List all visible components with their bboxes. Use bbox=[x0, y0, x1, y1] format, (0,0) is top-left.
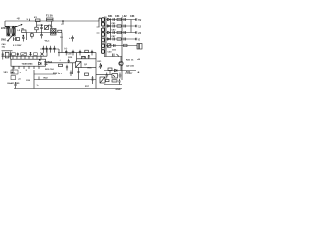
wire bottom long rail bbox=[14, 88, 122, 90]
capacitor C19b bbox=[53, 46, 55, 53]
label L2 bbox=[18, 30, 21, 32]
capacitor C30 bbox=[113, 54, 120, 57]
svg-text:R22: R22 bbox=[44, 78, 49, 80]
svg-text:GND: GND bbox=[116, 89, 121, 91]
vertical tick x131 bbox=[130, 20, 132, 33]
capacitor C85 bbox=[124, 25, 126, 28]
label Q2 row3 bbox=[126, 72, 131, 74]
label snubber a bbox=[65, 48, 68, 50]
wire y68 stub bbox=[77, 68, 79, 80]
label R9b bbox=[20, 72, 22, 74]
svg-text:24: 24 bbox=[138, 32, 141, 35]
capacitor C16 bbox=[42, 46, 44, 53]
label out3 bbox=[138, 32, 141, 35]
label SW bbox=[1, 39, 7, 42]
svg-text:+g: +g bbox=[17, 17, 20, 20]
label D1 bbox=[37, 25, 44, 27]
secondary row4 label bbox=[130, 16, 135, 18]
node label B+ bbox=[17, 17, 20, 20]
resistor R40 bbox=[124, 44, 128, 47]
resistor R14 bbox=[85, 73, 89, 75]
wire mid right rail bbox=[104, 56, 122, 58]
svg-text:R26 1u +: R26 1u + bbox=[53, 73, 63, 75]
preset VR1 bbox=[11, 76, 16, 80]
wire drop x62 bbox=[61, 33, 63, 53]
svg-text:VR1: VR1 bbox=[4, 72, 9, 74]
svg-text:C84: C84 bbox=[115, 15, 120, 18]
secondary row3 label bbox=[123, 16, 128, 18]
label C50 bbox=[108, 52, 113, 54]
label D31 bbox=[98, 61, 103, 63]
wire mid rail bbox=[26, 33, 57, 41]
diode D82 bbox=[108, 25, 111, 27]
diode bridge D1 bbox=[45, 26, 49, 30]
svg-text:KA431 R25: KA431 R25 bbox=[8, 82, 21, 85]
capacitor C7 bbox=[17, 53, 19, 57]
svg-text:C4: C4 bbox=[60, 36, 64, 39]
resistor R9 bbox=[11, 70, 18, 74]
label bottom node bbox=[37, 85, 40, 87]
label Q2 row1 bbox=[126, 60, 134, 62]
vertical x34 bbox=[33, 70, 35, 89]
svg-text:220V: 220V bbox=[1, 27, 7, 30]
label LM bbox=[18, 79, 21, 81]
label D6 bbox=[44, 61, 52, 67]
label snubber b bbox=[68, 57, 73, 59]
fuse F1 bbox=[47, 18, 54, 21]
resistor R4 bbox=[58, 30, 62, 32]
tick on top wire bbox=[29, 19, 31, 21]
capacitor C12 bbox=[79, 50, 81, 56]
svg-text:R17: R17 bbox=[85, 86, 90, 88]
IC pin stubs top bbox=[13, 56, 41, 59]
switch S1 bbox=[7, 36, 12, 42]
capacitor C87 bbox=[113, 31, 115, 34]
secondary rail row2 bbox=[106, 25, 136, 27]
label row5 bbox=[112, 50, 117, 52]
label right edge mid bbox=[137, 59, 140, 61]
label under IC2 bbox=[25, 70, 28, 72]
diode D83 bbox=[108, 31, 111, 33]
relay RL1 bbox=[36, 19, 41, 22]
inductor L83 bbox=[117, 25, 121, 27]
svg-text:C26: C26 bbox=[26, 80, 31, 82]
capacitor C10 bbox=[65, 50, 67, 56]
capacitor C17 bbox=[45, 46, 47, 53]
capacitor C13 bbox=[91, 50, 93, 56]
svg-text:10u: 10u bbox=[2, 47, 6, 49]
inductor L84 bbox=[117, 31, 121, 33]
label row + bbox=[45, 68, 63, 75]
svg-text:C86: C86 bbox=[130, 16, 135, 18]
label T2 bbox=[50, 27, 53, 29]
label D4 top bbox=[49, 24, 53, 27]
vertical bus x122 bbox=[121, 17, 123, 80]
label R1 bbox=[22, 28, 26, 30]
label left edge b bbox=[2, 47, 6, 49]
label out4 bbox=[138, 39, 140, 41]
diode D85 bbox=[107, 44, 111, 47]
capacitor C8 bbox=[29, 52, 31, 56]
pin row1 bbox=[136, 18, 137, 21]
svg-text:12: 12 bbox=[138, 26, 141, 28]
transformer T3 taps bbox=[97, 27, 100, 33]
label row1 mid bbox=[112, 23, 117, 25]
secondary row2 label bbox=[115, 15, 120, 18]
node junction J1 bbox=[63, 21, 64, 25]
wire y58.8 rail bbox=[77, 53, 97, 59]
vertical x96 bbox=[95, 53, 97, 89]
line-filter LF1 winding left bbox=[5, 26, 10, 35]
label RL1 bbox=[34, 17, 38, 19]
secondary rail row4 bbox=[106, 38, 136, 40]
svg-text:Q1: Q1 bbox=[84, 64, 88, 66]
svg-text:0.1 250V: 0.1 250V bbox=[13, 45, 22, 47]
wire bottom right rail bbox=[104, 84, 122, 86]
svg-text:C18: C18 bbox=[68, 54, 73, 56]
wire top rail bbox=[5, 20, 99, 22]
capacitor C82 bbox=[124, 18, 126, 21]
svg-text:D81: D81 bbox=[108, 16, 113, 18]
label right edge low bbox=[137, 72, 140, 74]
capacitor C21b bbox=[70, 71, 72, 77]
capacitor C6 electrolytic bbox=[5, 52, 9, 58]
svg-text:+: + bbox=[69, 37, 71, 40]
label C4 bbox=[60, 36, 64, 39]
diode D84 bbox=[108, 38, 111, 40]
svg-text:Q2 C45: Q2 C45 bbox=[126, 65, 135, 68]
svg-text:.1: .1 bbox=[25, 70, 28, 72]
svg-text:PC817: PC817 bbox=[126, 73, 134, 75]
svg-text:+5: +5 bbox=[18, 79, 21, 81]
resistor R10 bbox=[85, 50, 89, 52]
capacitor C3 bbox=[40, 33, 43, 39]
svg-text:C81: C81 bbox=[112, 23, 117, 25]
capacitor C19 bbox=[68, 59, 70, 63]
svg-text:+: + bbox=[20, 72, 22, 74]
capacitor C91 bbox=[114, 44, 116, 47]
vertical tick x110 rows bbox=[109, 20, 111, 40]
diode D6 bbox=[39, 60, 42, 65]
svg-text:F1 3A: F1 3A bbox=[46, 15, 53, 18]
diode D81 bbox=[108, 18, 111, 20]
IC U1 label bbox=[22, 63, 34, 66]
IC pins top rail bbox=[2, 55, 48, 57]
svg-text:TDA16846: TDA16846 bbox=[22, 63, 34, 66]
label row2 mid bbox=[112, 30, 117, 32]
svg-text:+c: +c bbox=[61, 24, 64, 26]
label C26 bbox=[26, 80, 31, 82]
label left edge a bbox=[2, 43, 7, 46]
transistor Q2 bbox=[119, 57, 123, 71]
wire vertical x59 bbox=[58, 49, 60, 56]
label F1 bbox=[46, 15, 53, 18]
svg-text:1~: 1~ bbox=[37, 85, 40, 87]
svg-text:G: G bbox=[138, 39, 140, 41]
capacitor C31 bbox=[106, 73, 109, 79]
resistor R1 bbox=[22, 30, 27, 32]
secondary rail row1 bbox=[106, 19, 136, 21]
transformer T3 primary winding bbox=[99, 18, 104, 27]
wire y74 short rail bbox=[34, 73, 56, 75]
resistor R34 bbox=[106, 80, 110, 82]
svg-text:(+): (+) bbox=[65, 48, 68, 50]
label under rail bbox=[85, 86, 90, 88]
label Q2 row2 bbox=[126, 65, 135, 68]
wire arrow from filter bbox=[17, 24, 22, 26]
capacitor C19c bbox=[66, 65, 68, 71]
opto box U3 bbox=[112, 74, 118, 79]
capacitor C18 bbox=[49, 46, 51, 53]
svg-text:~B+1: ~B+1 bbox=[44, 41, 50, 43]
resistor R35 bbox=[112, 80, 117, 82]
wire left cluster top bbox=[2, 50, 13, 52]
wire lower right rail bbox=[104, 70, 136, 72]
capacitor C32 bbox=[119, 73, 122, 79]
capacitor C20 bbox=[14, 82, 16, 89]
svg-text:C91: C91 bbox=[112, 50, 117, 52]
bottom left label bbox=[4, 72, 9, 74]
transformer T2 bbox=[51, 29, 57, 36]
svg-text:S: S bbox=[27, 19, 29, 21]
wire IC right to rail bbox=[46, 62, 77, 64]
svg-text:R23 C24: R23 C24 bbox=[45, 68, 54, 71]
capacitor C90 bbox=[124, 38, 126, 41]
svg-text:L82: L82 bbox=[123, 16, 128, 18]
resistor R6 bbox=[21, 53, 27, 56]
IC pin stubs bottom bbox=[14, 66, 39, 69]
label mid2 bbox=[68, 54, 73, 56]
capacitor C11 bbox=[72, 50, 74, 56]
IC U1 box bbox=[11, 59, 46, 66]
svg-text:SW1: SW1 bbox=[1, 39, 7, 42]
wire y79 rail bbox=[34, 79, 96, 81]
svg-text:R31 1k: R31 1k bbox=[126, 60, 134, 62]
resistor R15 bbox=[91, 76, 93, 84]
wire primary return bbox=[98, 21, 100, 27]
diode D5 bbox=[41, 53, 44, 56]
line-filter LF1 winding right bbox=[12, 26, 17, 35]
svg-text:-B: -B bbox=[137, 72, 140, 74]
inductor L85 bbox=[117, 38, 121, 40]
diode D10 bbox=[100, 77, 105, 83]
capacitor C89 bbox=[113, 38, 115, 41]
svg-text:C50: C50 bbox=[108, 52, 113, 54]
inductor L81 bbox=[117, 18, 121, 20]
wire y74 rail right bbox=[96, 74, 112, 76]
pin row4 bbox=[136, 38, 137, 41]
capacitor C15 bbox=[88, 55, 91, 59]
svg-text:10k: 10k bbox=[44, 64, 48, 66]
label row3 mid bbox=[112, 36, 117, 38]
label mid1 bbox=[60, 60, 62, 62]
secondary row1 label bbox=[108, 16, 113, 18]
capacitor C83 bbox=[113, 25, 115, 28]
svg-text:C83: C83 bbox=[112, 30, 117, 32]
sub label under IC bbox=[12, 72, 16, 74]
secondary rail row5 bbox=[106, 45, 137, 47]
secondary rail row3 bbox=[106, 32, 136, 34]
label C3 bbox=[44, 41, 50, 43]
svg-text:+: + bbox=[60, 60, 62, 62]
label R22 bbox=[44, 78, 49, 80]
resistor R3 bbox=[30, 33, 33, 39]
wire Q1 emitter rail bbox=[81, 67, 96, 69]
wire caps rail y49 bbox=[40, 48, 59, 50]
pin row2 bbox=[136, 25, 137, 28]
label CY bbox=[61, 24, 64, 26]
resistor R13 bbox=[82, 56, 86, 58]
capacitor C81 bbox=[113, 18, 115, 21]
svg-text:5V: 5V bbox=[138, 20, 141, 22]
capacitor C6b bbox=[10, 52, 12, 60]
resistor R2 bbox=[35, 22, 38, 33]
label bottom left row2 bbox=[8, 82, 21, 85]
transformer T3 secondary windings bbox=[102, 28, 105, 54]
transistor Q1 bbox=[76, 59, 82, 68]
resistor R21 bbox=[59, 64, 63, 66]
wire pin to VR bbox=[11, 66, 14, 72]
capacitor C4 bbox=[71, 36, 74, 42]
capacitor C4 plus bbox=[69, 37, 71, 40]
capacitor C5 bbox=[2, 52, 4, 60]
svg-text:C40: C40 bbox=[2, 43, 7, 46]
svg-text:C2 R3: C2 R3 bbox=[37, 25, 44, 27]
resistor R33 bbox=[108, 68, 112, 74]
transformer T3 core bbox=[105, 17, 106, 57]
label tick bbox=[27, 19, 29, 21]
label Q1 bbox=[84, 64, 88, 66]
diode D30 bbox=[115, 69, 118, 72]
tick x39 bbox=[38, 77, 40, 80]
wire snubber rail y52.6 bbox=[58, 52, 96, 54]
svg-text:D31: D31 bbox=[98, 61, 103, 63]
label out2 bbox=[138, 26, 141, 28]
varistor RV1 bbox=[13, 37, 20, 41]
label out1 bbox=[138, 20, 141, 22]
wire F1 to T2 bbox=[51, 21, 53, 29]
label snubber c bbox=[82, 57, 87, 59]
capacitor C2 bbox=[40, 25, 43, 33]
label X2 cap bbox=[13, 45, 22, 47]
capacitor CX1 bbox=[22, 35, 25, 41]
label AC plug bbox=[1, 27, 7, 30]
label PC817 bbox=[126, 73, 134, 75]
wire x72 drop bbox=[72, 63, 74, 74]
line-filter LF1 frame bbox=[7, 26, 16, 36]
svg-text:+B: +B bbox=[137, 59, 140, 61]
wire left drop bbox=[4, 21, 6, 27]
capacitor C33 bbox=[118, 79, 120, 85]
svg-text:R12: R12 bbox=[68, 57, 73, 59]
label bottom right bbox=[116, 89, 121, 91]
pin row3 bbox=[136, 31, 137, 34]
capacitor C88 bbox=[124, 31, 126, 34]
svg-text:L2: L2 bbox=[18, 30, 21, 32]
label R16 bbox=[88, 67, 93, 69]
resistor R7 bbox=[34, 53, 38, 56]
resistor R5 bbox=[12, 53, 16, 56]
connector CN2 bbox=[137, 44, 142, 50]
wire vertical x47 bbox=[46, 49, 48, 56]
diode D31 bbox=[99, 63, 101, 69]
svg-text:C87: C87 bbox=[112, 36, 117, 38]
